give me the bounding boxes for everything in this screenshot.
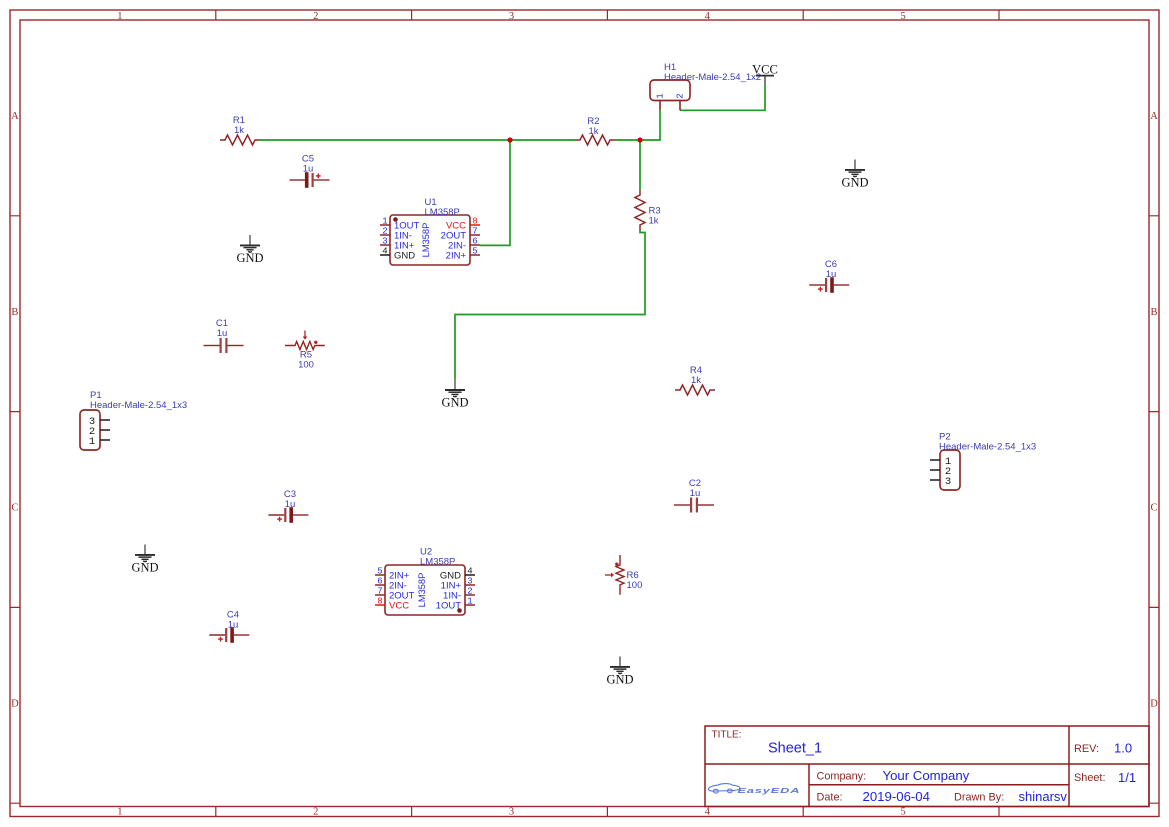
svg-text:1/1: 1/1 [1118,770,1136,785]
svg-text:VCC: VCC [389,601,409,612]
capacitor C6 [809,259,849,293]
svg-text:3: 3 [509,11,514,22]
svg-text:Date:: Date: [817,792,843,804]
svg-text:4: 4 [382,247,387,257]
svg-text:D: D [1150,699,1158,710]
svg-text:TITLE:: TITLE: [712,730,742,741]
wire R3 to GND [455,230,645,380]
svg-text:2: 2 [467,587,472,597]
svg-text:GND: GND [841,175,868,189]
pin 3 [380,244,390,246]
svg-text:3: 3 [382,237,387,247]
svg-text:4: 4 [705,11,711,22]
svg-text:4: 4 [705,807,711,818]
title block [705,726,1149,807]
pin 2 [930,469,940,471]
op-amp U1 [380,197,480,265]
svg-text:8: 8 [377,597,382,607]
svg-text:2IN+: 2IN+ [446,251,467,262]
pin 1 [380,224,390,226]
pin 4 [465,574,475,576]
resistor R2 [575,116,615,145]
resistor R3 [635,190,661,230]
ground near C5 [236,235,263,265]
svg-text:Header-Male-2.54_1x3: Header-Male-2.54_1x3 [939,442,1036,453]
svg-text:8: 8 [472,217,477,227]
svg-text:Header-Male-2.54_1x2: Header-Male-2.54_1x2 [664,72,761,83]
vcc net flag [752,63,778,86]
svg-text:2: 2 [382,227,387,237]
svg-text:6: 6 [472,237,477,247]
pin 5 [470,254,480,256]
svg-text:3: 3 [945,476,951,488]
svg-text:B: B [11,307,18,318]
svg-text:1: 1 [89,436,95,448]
svg-text:1: 1 [117,11,122,22]
svg-text:1u: 1u [303,163,314,174]
svg-text:GND: GND [394,251,415,262]
svg-text:A: A [11,111,19,122]
svg-text:1u: 1u [826,269,837,280]
svg-text:1u: 1u [228,619,239,630]
svg-text:LM358P: LM358P [420,557,455,568]
svg-text:D: D [11,699,19,710]
svg-text:6: 6 [377,577,382,587]
svg-text:1: 1 [656,93,666,98]
svg-text:GND: GND [236,251,263,265]
svg-text:1k: 1k [649,216,659,227]
pin 1 [465,604,475,606]
pin 2 [679,101,681,111]
svg-text:C: C [1150,503,1157,514]
junction node at R2/R3/H1 [637,137,642,142]
pin 4 [380,254,390,256]
pin 1 [659,101,661,111]
svg-text:Your Company: Your Company [883,768,970,783]
pin 3 [465,584,475,586]
capacitor C3 [268,489,308,523]
op-amp U2 [375,547,475,616]
svg-text:GND: GND [441,395,468,409]
svg-text:7: 7 [472,227,477,237]
resistor R6 (trimmer) [605,555,642,595]
ground mid [441,380,468,410]
ground top right [841,160,868,190]
pin 8 [375,604,385,606]
svg-text:Sheet:: Sheet: [1074,772,1106,784]
pin 1 [930,459,940,461]
svg-text:1: 1 [382,217,387,227]
wire node to R3 [639,140,641,190]
svg-text:4: 4 [467,567,472,577]
svg-text:1k: 1k [588,126,598,137]
wire R2 to H1 pin1 [615,110,660,140]
svg-text:1u: 1u [217,328,228,339]
svg-text:LM358P: LM358P [425,207,460,218]
capacitor C1 [204,318,244,353]
svg-text:1k: 1k [234,125,244,136]
svg-text:7: 7 [377,587,382,597]
capacitor C4 [209,609,249,642]
pin 7 [470,234,480,236]
pin 6 [375,584,385,586]
svg-text:Header-Male-2.54_1x3: Header-Male-2.54_1x3 [90,400,187,411]
ground bottom [606,657,633,687]
svg-text:1k: 1k [691,375,701,386]
svg-text:GND: GND [606,672,633,686]
wire node to U1 pin6 [480,140,510,245]
ground left [131,545,158,575]
svg-text:A: A [1150,111,1158,122]
svg-text:5: 5 [900,11,905,22]
svg-text:shinarsv: shinarsv [1019,789,1068,804]
resistor R5 (trimmer) [285,331,325,371]
svg-text:REV:: REV: [1074,743,1099,755]
svg-text:C: C [11,503,18,514]
pin 2 [100,429,110,431]
svg-text:LM358P: LM358P [417,573,427,608]
svg-text:2019-06-04: 2019-06-04 [863,789,930,804]
header H1 [650,62,761,110]
pin 3 [930,479,940,481]
resistor R4 [675,365,715,395]
pin 5 [375,574,385,576]
svg-text:LM358P: LM358P [421,223,431,258]
svg-text:1OUT: 1OUT [436,601,462,612]
pin 3 [100,419,110,421]
wire R1 to R2 net [260,139,575,141]
capacitor C2 [674,478,714,513]
svg-text:Company:: Company: [817,770,867,782]
svg-text:3: 3 [509,807,514,818]
svg-text:Sheet_1: Sheet_1 [768,740,822,756]
svg-text:5: 5 [377,567,382,577]
svg-text:EasyEDA: EasyEDA [738,787,801,795]
svg-text:2: 2 [313,807,318,818]
svg-text:1: 1 [467,597,472,607]
pin 8 [470,224,480,226]
svg-text:2: 2 [676,93,686,98]
svg-text:5: 5 [900,807,905,818]
pin 2 [465,594,475,596]
header P1 [80,390,187,450]
header P2 [930,432,1036,491]
svg-text:1.0: 1.0 [1114,741,1132,756]
svg-text:1u: 1u [285,499,296,510]
pin 1 [100,439,110,441]
resistor R1 [220,115,260,145]
pin 2 [380,234,390,236]
svg-text:B: B [1150,307,1157,318]
pin 7 [375,594,385,596]
junction node at R1/R2 [507,137,512,142]
svg-text:3: 3 [467,577,472,587]
pin 6 [470,244,480,246]
svg-text:Drawn By:: Drawn By: [954,792,1004,804]
svg-text:100: 100 [298,360,314,371]
easyeda logo [708,784,740,794]
capacitor C5 [290,153,330,188]
svg-text:1: 1 [117,807,122,818]
svg-text:100: 100 [627,580,643,591]
svg-text:VCC: VCC [752,63,778,77]
svg-text:5: 5 [472,247,477,257]
wire H1 pin2 to VCC [680,85,765,110]
svg-text:1u: 1u [690,488,701,499]
svg-text:GND: GND [131,560,158,574]
svg-text:2: 2 [313,11,318,22]
